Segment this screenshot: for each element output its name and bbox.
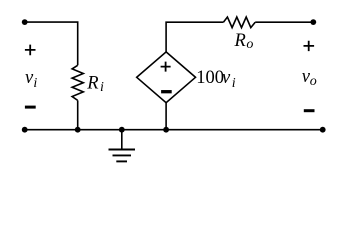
dependent source U1 (diamond, 100vi): [137, 52, 196, 103]
label Ri: [86, 74, 104, 95]
node Ri bottom junction: [75, 127, 81, 133]
resistor Ri (vertical zigzag): [72, 65, 83, 100]
polarity minus output: [304, 109, 315, 112]
resistor Ro (horizontal zigzag): [223, 17, 255, 28]
svg-text:100: 100: [196, 68, 224, 88]
svg-text:R: R: [234, 31, 246, 51]
wire Ri bottom to ground rail: [77, 100, 79, 129]
label vi: [25, 68, 37, 91]
label Ro: [234, 31, 254, 52]
node output top: [310, 19, 316, 25]
wire bottom rail: [25, 129, 323, 131]
svg-text:i: i: [100, 80, 104, 95]
svg-text:o: o: [246, 37, 253, 52]
label 100vi: [196, 68, 236, 91]
wire source top stem and top rail to Ro: [166, 22, 223, 52]
ground: [109, 130, 136, 162]
polarity plus output: [304, 41, 315, 51]
label vo: [302, 67, 317, 89]
node input bottom: [22, 127, 28, 133]
node ground tap junction: [119, 127, 125, 133]
polarity minus inside source: [161, 90, 172, 93]
wire top-left horizontal with corner down to Ri: [25, 22, 78, 65]
svg-text:v: v: [222, 68, 231, 88]
svg-text:i: i: [232, 76, 236, 91]
node input top (filled dot): [22, 19, 28, 25]
svg-text:o: o: [310, 74, 317, 89]
wire dependent source bottom stem: [165, 103, 167, 130]
polarity minus input: [25, 106, 36, 109]
wire Ro to output node: [255, 21, 313, 23]
polarity plus inside source: [161, 62, 171, 72]
node output bottom: [320, 127, 326, 133]
svg-text:i: i: [33, 76, 37, 91]
node dependent-source bottom junction: [163, 127, 169, 133]
svg-text:R: R: [86, 74, 98, 94]
polarity plus input: [25, 45, 36, 56]
